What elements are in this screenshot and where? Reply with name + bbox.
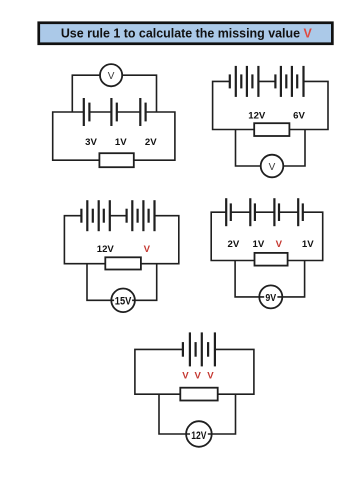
- voltmeter 12V (circuit 5): [186, 421, 212, 447]
- resistor (circuit 2): [254, 123, 289, 136]
- label 3V: [85, 137, 97, 148]
- battery cell 2V (circuit 4): [226, 198, 231, 226]
- resistor (circuit 1): [99, 153, 133, 167]
- voltmeter 15V (circuit 3): [111, 289, 135, 313]
- wire: circuit 3 main loop: [64, 216, 178, 264]
- svg-text:V: V: [194, 371, 201, 382]
- label 2V: [145, 137, 157, 148]
- label V red 3 (circuit 5): [207, 371, 214, 382]
- label V red 1 (circuit 5): [182, 371, 189, 382]
- resistor (circuit 4): [255, 253, 288, 266]
- battery cell V (circuit 4): [274, 198, 279, 226]
- svg-text:V: V: [144, 244, 151, 255]
- label V red (circuit 3): [144, 244, 151, 255]
- battery cell 1V a (circuit 4): [250, 198, 255, 226]
- svg-text:V: V: [207, 371, 214, 382]
- label 12V (circuit 2): [248, 111, 266, 122]
- resistor (circuit 3): [105, 257, 141, 269]
- svg-text:V: V: [182, 371, 189, 382]
- svg-text:1V: 1V: [302, 239, 314, 250]
- svg-text:Use rule 1 to calculate the mi: Use rule 1 to calculate the missing valu…: [61, 26, 313, 40]
- label 12V (circuit 3): [97, 244, 115, 255]
- svg-text:V: V: [108, 71, 115, 82]
- svg-text:1V: 1V: [115, 137, 127, 148]
- battery pack 12V (circuit 3): [81, 200, 109, 231]
- svg-text:3V: 3V: [85, 137, 97, 148]
- voltmeter V (circuit 1): [100, 64, 122, 86]
- battery pack 6V (circuit 2): [275, 66, 303, 97]
- resistor (circuit 5): [180, 388, 217, 401]
- battery cell 1V b (circuit 4): [298, 198, 303, 226]
- voltmeter 9V (circuit 4): [259, 285, 282, 308]
- label V red 2 (circuit 5): [194, 371, 201, 382]
- svg-text:12V: 12V: [191, 430, 207, 442]
- svg-text:12V: 12V: [97, 244, 115, 255]
- svg-text:12V: 12V: [248, 111, 266, 122]
- svg-text:6V: 6V: [293, 111, 305, 122]
- svg-text:1V: 1V: [253, 239, 265, 250]
- svg-text:V: V: [276, 239, 283, 250]
- wire: circuit 4 voltmeter branch: [235, 261, 305, 297]
- svg-text:15V: 15V: [115, 296, 132, 308]
- label 1V: [115, 137, 127, 148]
- wire: circuit 2 voltmeter branch: [236, 130, 306, 167]
- label 2V (circuit 4): [228, 239, 240, 250]
- label V red (circuit 4): [276, 239, 283, 250]
- title text: [61, 26, 313, 40]
- svg-text:2V: 2V: [145, 137, 157, 148]
- label 6V (circuit 2): [293, 111, 305, 122]
- voltmeter V (circuit 2): [261, 155, 284, 178]
- wire: circuit 4 main loop: [211, 212, 323, 260]
- svg-text:9V: 9V: [265, 292, 276, 304]
- battery pack V (circuit 3): [127, 200, 155, 231]
- wire: circuit 2 main loop: [213, 81, 328, 129]
- battery pack V V V (circuit 5): [183, 332, 215, 366]
- label 1V a (circuit 4): [253, 239, 265, 250]
- battery cell 2V (circuit 1): [140, 98, 145, 126]
- label 1V b (circuit 4): [302, 239, 314, 250]
- wire: circuit 5 main loop: [135, 349, 254, 394]
- wire: circuit 1 main loop: [53, 112, 175, 160]
- svg-text:V: V: [269, 162, 276, 173]
- wire: circuit 5 voltmeter branch: [159, 394, 236, 434]
- wire: circuit 3 voltmeter branch: [87, 264, 157, 301]
- battery pack 12V (circuit 2): [230, 66, 259, 97]
- wire: circuit 1 voltmeter branch: [72, 75, 156, 112]
- battery cell 3V (circuit 1): [84, 98, 90, 126]
- battery cell 1V (circuit 1): [111, 98, 116, 126]
- svg-text:2V: 2V: [228, 239, 240, 250]
- title box: [39, 23, 333, 44]
